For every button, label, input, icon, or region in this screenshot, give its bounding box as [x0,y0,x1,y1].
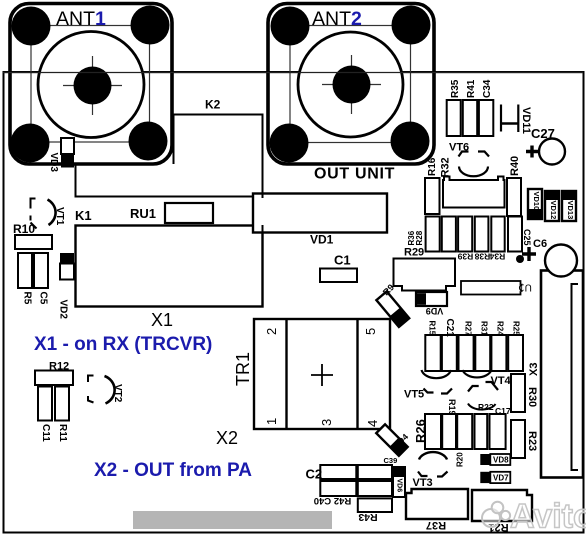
svg-text:R11: R11 [57,424,68,442]
svg-text:R43: R43 [358,511,377,523]
svg-text:C27: C27 [531,126,555,141]
svg-text:R35: R35 [450,79,461,98]
resistor R5 [18,253,32,288]
svg-text:R12: R12 [49,361,69,373]
resistor R23 [511,420,525,458]
svg-text:R37: R37 [426,519,446,531]
resistor R16 [425,178,440,214]
svg-text:VD3: VD3 [48,153,59,173]
svg-text:VT1: VT1 [54,207,65,226]
svg-text:RU1: RU1 [130,206,156,221]
capacitor C11 [38,387,52,421]
C27 plus [526,146,538,158]
svg-text:R22: R22 [478,402,494,412]
svg-text:R16: R16 [427,157,438,176]
svg-text:R20: R20 [456,452,465,467]
svg-text:X1 - on RX (TRCVR): X1 - on RX (TRCVR) [34,334,212,355]
svg-text:R40: R40 [509,156,521,176]
ANT2 outline [268,4,434,165]
connector ANT2 [268,4,434,165]
svg-text:K1: K1 [75,208,92,223]
svg-text:VT5: VT5 [404,389,424,401]
svg-text:C2: C2 [306,467,323,482]
VT4 lead marks [468,386,479,392]
ANT2 center crosshair [322,84,381,86]
resistor R32 body [443,177,505,208]
relay X1 block [76,226,263,307]
resistor R29 [394,259,456,291]
svg-text:VD8: VD8 [493,456,509,465]
svg-text:R30: R30 [526,387,538,407]
svg-text:Avito: Avito [510,498,586,536]
resistor R40 [507,178,521,216]
resistor bank row1 col4 [475,217,489,252]
transistor VT3 [419,452,447,459]
resistor bank row2 col1 R15 [425,335,440,371]
svg-text:TR1: TR1 [233,352,253,386]
ANT1 center pad [74,67,112,105]
diode VD7 [480,472,510,483]
wire stub VD1 bottom [262,225,264,234]
diode VD4 diagonal [376,424,410,455]
resistor R43 [358,498,392,512]
svg-text:R41: R41 [466,79,477,98]
resistor bank row2 col5 R24 [491,335,506,371]
svg-text:R39: R39 [457,252,473,262]
transistor VT2 [88,376,115,404]
resistor R12 [35,371,73,386]
svg-text:C39: C39 [384,456,398,465]
svg-text:VD13: VD13 [566,201,575,220]
ANT2 pad bottom-left [270,124,309,163]
TR1 center cross [311,364,333,386]
transistor VT4 circle arc [463,370,492,377]
svg-text:2: 2 [264,328,279,335]
svg-text:VT4: VT4 [491,375,512,387]
svg-text:C11: C11 [40,424,51,442]
resistor bank row2 col2 C21 [442,335,457,371]
wire top net line [3,72,583,74]
svg-text:VT3: VT3 [413,477,433,489]
ANT2 pad top-right [392,6,431,45]
resistor bank row3 col1 [425,414,441,449]
svg-text:X1: X1 [151,310,173,330]
resistor bank row3 col2 [442,414,456,449]
capacitor C2 block row1 left [320,465,356,479]
connector X3 [541,271,583,478]
svg-text:R31: R31 [480,321,489,336]
svg-text:C21: C21 [444,319,455,338]
wire pad square ANT1 [31,26,150,143]
svg-text:VD12: VD12 [549,201,558,220]
resistor R37 [406,489,468,519]
capacitor C6 [545,245,577,277]
svg-text:3: 3 [319,419,334,426]
svg-text:C6: C6 [533,238,547,250]
wire stub VD1 top [262,191,264,198]
svg-text:C34: C34 [482,79,493,98]
watermark avito logo [482,498,586,536]
resistor bank row2 col6 R25 [508,335,523,371]
diode VD10 [528,189,542,219]
svg-text:VT2: VT2 [112,384,123,403]
capacitor C40 row2 right [358,481,392,496]
transistor VT5 circle arc [422,370,452,378]
ANT1 pad top-right [131,6,170,45]
svg-text:R15: R15 [428,321,437,336]
ANT1 pad bottom-left [11,124,50,163]
svg-text:VT6: VT6 [449,142,469,154]
VT5 lead marks [424,389,434,393]
diode VD2 [60,253,74,263]
relay K2 outline [76,115,263,197]
diode VD9 [416,292,447,316]
diode VD12 [545,191,559,221]
svg-text:VD6: VD6 [396,479,403,493]
svg-text:K2: K2 [205,98,221,112]
gray censor bar [133,511,332,529]
svg-text:R23: R23 [526,431,538,451]
wire top net line over ANT [3,72,583,74]
capacitor C5 [34,253,48,288]
IC U1 [461,281,532,295]
ANT1 pad bottom-right [129,122,168,161]
svg-text:VD9: VD9 [426,306,444,316]
diode VD1 body [253,194,387,233]
svg-text:VD7: VD7 [493,474,509,483]
capacitor C6 plus [522,247,536,261]
ANT2 center pad [333,66,371,104]
capacitor C2 block row1 right [358,465,392,479]
wire arc at R22 [468,404,496,410]
ANT2 pad bottom-right [391,122,430,161]
resistor R11 [55,387,69,421]
capacitor C34 [479,100,493,136]
svg-text:ANT1: ANT1 [56,8,106,30]
svg-text:R42 C40: R42 C40 [314,495,352,506]
resistor R21 [472,490,532,521]
transformer TR1 [254,319,390,429]
ANT1 pad top-left [12,7,51,46]
resistor bank row1 col3 [458,217,472,252]
resistor bank row1 col6 [508,217,522,252]
diode R9 diagonal [376,282,409,327]
resistor R42 row2 left [320,481,356,496]
ANT1 center crosshair [63,85,122,87]
svg-text:OUT UNIT: OUT UNIT [314,166,395,183]
svg-text:R32: R32 [440,157,452,177]
wire pad square ANT2 [290,26,411,143]
svg-text:X3: X3 [528,363,540,376]
svg-text:C25: C25 [522,229,532,246]
svg-text:VD10: VD10 [532,192,541,211]
svg-text:C5: C5 [38,292,49,305]
svg-text:R38: R38 [474,252,490,262]
transistor VT6 [459,152,490,177]
capacitor C39 [393,466,407,476]
svg-text:5: 5 [363,328,378,335]
ANT2 big circle [298,32,403,137]
resistor bank row3 col3 [457,414,472,449]
ANT1 big circle [38,32,144,138]
resistor bank row1 col5 [491,217,504,252]
diode VD11 [501,105,518,133]
diode VD6 [393,476,405,497]
resistor bank row2 col4 R31 [475,335,490,371]
svg-text:X2 - OUT from PA: X2 - OUT from PA [94,460,252,481]
ANT1 outline [10,4,172,165]
diode VD13 [562,191,576,221]
resistor bank row1 col2 [442,217,456,252]
svg-text:R24: R24 [496,321,505,336]
resistor bank row1 col1 [426,217,440,252]
svg-text:U1: U1 [519,281,532,292]
resistor R10 [15,235,52,249]
svg-text:R29: R29 [404,247,424,259]
svg-text:R27: R27 [464,321,473,336]
svg-text:R5: R5 [22,292,33,305]
svg-text:R25: R25 [512,321,521,336]
ANT2 pad top-left [271,7,310,46]
svg-text:R34: R34 [489,252,505,262]
svg-text:C1: C1 [334,253,351,268]
capacitor C27 [539,139,565,165]
transistor VT1 [31,199,56,229]
svg-text:VD2: VD2 [58,300,69,320]
svg-text:R28: R28 [415,230,424,245]
junction dot [516,255,524,263]
resistor bank row2 col3 R27 [459,335,474,371]
svg-text:ANT2: ANT2 [312,8,362,30]
diode VD8 [480,454,510,465]
resistor R30 [511,374,525,412]
svg-text:4: 4 [365,420,380,427]
resistor R35 [447,100,461,136]
diode VD3 [61,138,74,154]
svg-text:R26: R26 [413,419,428,443]
svg-text:1: 1 [264,418,279,425]
varistor RU1 [165,203,213,223]
svg-text:VD1: VD1 [310,233,334,247]
resistor bank row3 col5 [490,414,506,449]
resistor bank row3 col4 [475,414,488,449]
svg-text:X2: X2 [216,428,238,448]
capacitor C1 [320,269,357,283]
connector ANT1 [10,4,172,165]
resistor R41 [463,100,477,136]
